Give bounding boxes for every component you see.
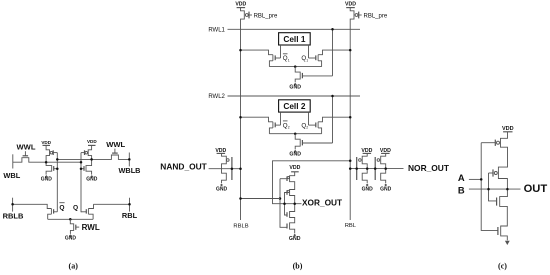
svg-text:XOR_OUT: XOR_OUT: [302, 197, 342, 207]
svg-text:RBL: RBL: [345, 223, 357, 229]
svg-text:VDD: VDD: [87, 139, 97, 144]
svg-text:RBLB: RBLB: [233, 224, 248, 230]
svg-text:RWL2: RWL2: [208, 94, 225, 100]
svg-text:GND: GND: [289, 152, 301, 158]
svg-text:RWL: RWL: [82, 223, 100, 232]
svg-text:Q: Q: [73, 204, 78, 211]
svg-text:(c): (c): [498, 262, 507, 271]
svg-text:GND: GND: [86, 176, 98, 182]
svg-text:Cell 1: Cell 1: [283, 34, 306, 44]
svg-text:GND: GND: [289, 84, 301, 90]
svg-text:GND: GND: [289, 236, 301, 242]
svg-text:NAND_OUT: NAND_OUT: [160, 162, 207, 172]
svg-text:GND: GND: [362, 186, 374, 192]
svg-text:(b): (b): [293, 262, 303, 271]
svg-text:GND: GND: [65, 235, 77, 241]
svg-text:OUT: OUT: [524, 183, 548, 195]
svg-text:(a): (a): [69, 262, 79, 271]
svg-text:GND: GND: [41, 176, 53, 182]
svg-text:GND: GND: [216, 186, 228, 192]
svg-text:1: 1: [306, 58, 308, 62]
svg-text:Q: Q: [59, 204, 64, 211]
svg-text:VDD: VDD: [41, 140, 51, 145]
svg-text:WBL: WBL: [3, 171, 20, 180]
svg-text:NOR_OUT: NOR_OUT: [408, 163, 450, 173]
svg-text:WWL: WWL: [17, 143, 36, 152]
svg-text:2: 2: [288, 126, 290, 130]
svg-text:A: A: [458, 172, 465, 183]
svg-text:VDD: VDD: [235, 2, 246, 8]
svg-text:RBLB: RBLB: [3, 212, 24, 221]
svg-text:Cell 2: Cell 2: [283, 101, 306, 111]
svg-text:WBLB: WBLB: [119, 166, 141, 175]
svg-text:2: 2: [306, 126, 308, 130]
svg-text:RBL_pre: RBL_pre: [254, 13, 278, 19]
svg-text:VDD: VDD: [345, 2, 356, 8]
svg-text:VDD: VDD: [289, 165, 300, 171]
svg-text:RWL1: RWL1: [208, 27, 225, 33]
svg-text:RBL_pre: RBL_pre: [364, 13, 388, 19]
svg-text:1: 1: [288, 58, 290, 62]
svg-text:WWL: WWL: [106, 140, 125, 149]
svg-text:B: B: [458, 184, 465, 195]
svg-text:RBL: RBL: [122, 211, 138, 220]
svg-text:GND: GND: [380, 186, 392, 192]
